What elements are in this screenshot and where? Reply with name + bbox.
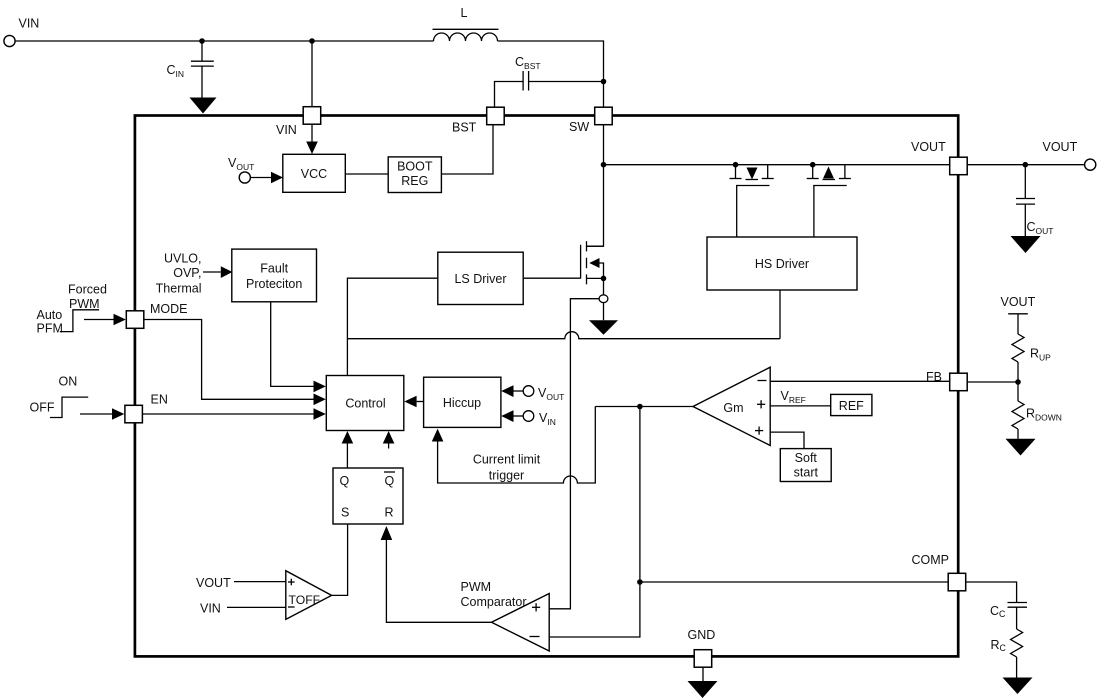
svg-text:LS Driver: LS Driver <box>454 272 506 286</box>
wire M2 gate to HS Driver <box>813 186 815 238</box>
block VCC <box>283 154 346 192</box>
block Hiccup <box>424 377 501 427</box>
svg-text:Current limit: Current limit <box>473 453 541 467</box>
pin BST <box>487 107 505 125</box>
wire Fault Proteciton to Control <box>271 302 314 387</box>
inductor L <box>433 28 499 30</box>
svg-text:CIN: CIN <box>167 63 185 79</box>
svg-text:Q: Q <box>340 474 350 488</box>
block Control <box>326 376 404 431</box>
waveform MODE step <box>60 310 99 332</box>
wire MODE pin to Control <box>144 320 314 400</box>
wire VIN top rail <box>15 40 433 42</box>
node VOUT input to Hiccup <box>523 386 534 397</box>
wire latch S input from TOFF <box>332 524 348 595</box>
ground below Rc <box>1016 657 1018 678</box>
svg-text:OVP,: OVP, <box>173 266 201 280</box>
resistor Rc <box>1011 629 1023 657</box>
pin MODE <box>126 311 144 329</box>
pin FB <box>950 373 968 391</box>
svg-text:Hiccup: Hiccup <box>443 396 481 410</box>
svg-text:PFM: PFM <box>37 322 63 336</box>
svg-text:Soft: Soft <box>795 451 818 465</box>
wire current sense to PWM comparator plus <box>549 299 599 609</box>
wire latch R input from PWM comparator <box>386 540 491 622</box>
svg-text:RUP: RUP <box>1030 347 1051 363</box>
svg-text:start: start <box>794 466 819 480</box>
op-amp Gm error amplifier <box>693 367 770 445</box>
wire Gm minus input to FB pin <box>770 380 950 382</box>
block Soft start <box>780 449 831 482</box>
svg-text:VIN: VIN <box>19 17 40 31</box>
svg-text:Thermal: Thermal <box>156 282 202 296</box>
waveform EN step <box>50 397 88 417</box>
wire VCC to BOOT REG <box>345 173 388 175</box>
svg-text:COUT: COUT <box>1027 220 1054 236</box>
ground below CIN <box>190 98 217 114</box>
ground below RDOWN <box>1017 429 1019 439</box>
svg-text:L: L <box>461 6 468 20</box>
wire SW drop to LS FET drain <box>587 165 604 247</box>
wire FB pin to divider <box>967 381 1018 383</box>
block BOOT REG <box>388 157 441 193</box>
svg-text:CBST: CBST <box>515 55 541 71</box>
op-amp TOFF one-shot <box>286 571 332 620</box>
svg-text:SW: SW <box>569 120 589 134</box>
ground below LS FET <box>589 320 618 335</box>
svg-text:Q: Q <box>385 474 395 488</box>
svg-text:EN: EN <box>151 393 168 407</box>
ground below COUT <box>1011 236 1041 253</box>
ground below GND pin <box>702 667 704 681</box>
svg-text:PWM: PWM <box>69 297 100 311</box>
wire SW pin to VOUT rail <box>603 125 605 165</box>
resistor RDOWN <box>1017 382 1019 401</box>
svg-text:R: R <box>385 506 394 520</box>
capacitor CIN <box>201 41 203 61</box>
svg-text:VIN: VIN <box>276 123 297 137</box>
wire VIN pin into VCC with arrow <box>311 125 313 142</box>
IC boundary <box>135 116 958 657</box>
svg-text:GND: GND <box>688 628 716 642</box>
svg-text:Proteciton: Proteciton <box>246 277 302 291</box>
svg-text:RDOWN: RDOWN <box>1026 407 1062 423</box>
wire Cc to Rc <box>1016 607 1018 629</box>
svg-text:TOFF: TOFF <box>289 593 321 607</box>
node VOUT external terminal <box>967 164 1084 166</box>
svg-text:VOUT: VOUT <box>911 140 946 154</box>
node junction CBST to SW line <box>601 79 607 85</box>
resistor RUP <box>1012 334 1024 362</box>
node Gm output junction <box>637 404 643 410</box>
svg-text:Comparator: Comparator <box>461 595 527 609</box>
wire VOUT to VCC arrow <box>250 177 271 179</box>
svg-text:UVLO,: UVLO, <box>164 252 202 266</box>
wire VIN pin drop <box>311 41 313 107</box>
wire HS Driver output to control node (with hop) <box>779 290 781 339</box>
svg-text:Forced: Forced <box>68 283 107 297</box>
pin COMP <box>948 573 966 591</box>
wire UVLO arrow into Fault Proteciton <box>203 271 221 273</box>
svg-text:RC: RC <box>991 638 1007 653</box>
svg-text:REF: REF <box>839 399 864 413</box>
wire latch Q to Control arrow <box>346 444 348 469</box>
wire arrow into EN pin <box>80 413 112 415</box>
svg-text:BST: BST <box>452 121 477 135</box>
wire Gm output <box>595 406 693 408</box>
pin VIN <box>303 107 321 125</box>
svg-text:BOOT: BOOT <box>397 160 433 174</box>
svg-text:OFF: OFF <box>30 401 55 415</box>
svg-text:trigger: trigger <box>489 469 524 483</box>
node VIN input terminal <box>4 35 15 46</box>
svg-text:Control: Control <box>345 397 385 411</box>
node current sense circle <box>599 295 608 303</box>
wire arrow into MODE pin <box>84 319 114 321</box>
svg-text:COMP: COMP <box>912 553 950 567</box>
wire EN pin to Control <box>142 413 313 415</box>
svg-text:MODE: MODE <box>150 302 188 316</box>
svg-text:S: S <box>341 506 349 520</box>
svg-text:Fault: Fault <box>260 262 288 276</box>
capacitor CBST <box>495 82 524 108</box>
svg-text:Gm: Gm <box>723 401 743 415</box>
transistor HS FET M2 <box>810 162 816 168</box>
node junction at VIN pin <box>309 38 315 44</box>
wire sense to ground <box>603 303 605 321</box>
node FB junction <box>1015 379 1021 385</box>
wire current limit trigger into Hiccup (with hop) <box>438 407 596 484</box>
wire Gm plus input to REF <box>770 405 831 407</box>
wire COMP node to COMP pin <box>640 581 948 583</box>
svg-text:Auto: Auto <box>37 308 63 322</box>
svg-text:VIN: VIN <box>200 602 221 616</box>
pin VOUT <box>950 157 968 175</box>
capacitor Cc <box>1008 602 1028 604</box>
wire RUP to FB node <box>1017 362 1019 382</box>
node junction SW-VOUT rail <box>601 162 607 168</box>
wire LS Driver to LS FET gate <box>523 277 580 279</box>
svg-text:VOUT: VOUT <box>1001 295 1036 309</box>
wire stub arrow to Control bottom <box>388 444 390 449</box>
wire M1 gate to HS Driver <box>736 186 738 238</box>
wire BOOT REG to BST pin <box>441 125 493 174</box>
pin EN <box>125 405 142 423</box>
capacitor COUT <box>1023 162 1029 168</box>
node VIN input to Hiccup <box>523 411 534 422</box>
node COMP branch junction <box>637 579 643 585</box>
svg-text:VOUT: VOUT <box>1043 140 1078 154</box>
svg-text:PWM: PWM <box>461 580 492 594</box>
wire L to SW corner <box>498 41 604 107</box>
wire Hiccup to Control arrow <box>417 401 424 403</box>
svg-text:HS Driver: HS Driver <box>755 257 809 271</box>
wire COMP pin to compensation <box>966 582 1017 603</box>
block Fault Proteciton <box>232 249 317 302</box>
wire source to sense node <box>603 278 605 294</box>
op-amp PWM comparator <box>492 594 550 652</box>
block LS Driver <box>438 252 523 304</box>
svg-text:CC: CC <box>990 604 1006 619</box>
svg-text:VOUT: VOUT <box>196 576 231 590</box>
transistor LS FET <box>580 245 582 279</box>
flip-flop S-R latch <box>333 468 403 524</box>
node junction at CIN <box>199 38 205 44</box>
node LS FET source junction <box>601 276 607 282</box>
wire Gm output down to PWM comparator minus <box>549 407 640 638</box>
svg-text:ON: ON <box>59 374 78 388</box>
block REF <box>831 394 872 415</box>
wire LS Driver input from control node <box>347 278 437 375</box>
svg-text:REG: REG <box>401 174 428 188</box>
wire Gm soft-start input <box>770 432 804 449</box>
block HS Driver <box>707 237 857 290</box>
pin SW <box>595 107 613 125</box>
transistor HS FET M1 <box>733 162 739 168</box>
svg-text:VCC: VCC <box>301 167 327 181</box>
wire VOUT rail inside IC <box>604 164 950 166</box>
pin GND <box>694 650 712 668</box>
